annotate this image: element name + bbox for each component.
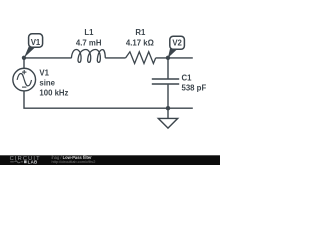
V1 sine symbol bbox=[17, 74, 31, 86]
ground bbox=[158, 118, 177, 128]
svg-text:LAB: LAB bbox=[28, 159, 38, 164]
wire top: L1 to R1 bbox=[105, 57, 125, 59]
capacitor C1 plates bbox=[152, 79, 179, 84]
svg-text:4.7 mH: 4.7 mH bbox=[76, 38, 102, 47]
junction dot node V2 bbox=[166, 56, 170, 60]
svg-text:sine: sine bbox=[39, 79, 55, 88]
resistor R1 zigzag bbox=[126, 52, 156, 64]
svg-text:V2: V2 bbox=[172, 39, 182, 48]
junction dot bottom bbox=[166, 106, 170, 110]
node V1 callout tail bbox=[24, 45, 35, 57]
svg-text:http://circuitlab.com/c9tv2: http://circuitlab.com/c9tv2 bbox=[52, 159, 96, 164]
node V1 box bbox=[29, 34, 43, 47]
wire C1 top lead bbox=[167, 58, 169, 79]
svg-text:538 pF: 538 pF bbox=[182, 84, 207, 93]
logo LAB mark bbox=[24, 160, 27, 163]
wire ground lead bbox=[167, 108, 169, 118]
svg-text:4.17 kΩ: 4.17 kΩ bbox=[126, 38, 154, 47]
wire top: node V1 to L1 bbox=[24, 57, 72, 59]
svg-text:R1: R1 bbox=[135, 28, 146, 37]
svg-text:L1: L1 bbox=[84, 28, 94, 37]
svg-text:100 kHz: 100 kHz bbox=[39, 89, 68, 98]
node V2 box bbox=[170, 36, 185, 49]
svg-text:C1: C1 bbox=[182, 74, 193, 83]
svg-text:V1: V1 bbox=[31, 38, 41, 47]
voltage source V1 circle bbox=[13, 68, 36, 91]
watermark bar bbox=[0, 155, 220, 165]
wire C1 bottom lead bbox=[167, 85, 169, 109]
junction dot node V1 bbox=[22, 56, 26, 60]
wire bottom rail with V1 bottom lead bbox=[24, 91, 193, 108]
inductor L1 bbox=[71, 50, 105, 63]
wire top: R1 to right stub through node V2 bbox=[156, 57, 193, 59]
logo waveform bbox=[10, 161, 23, 163]
V1 minus sign bbox=[22, 86, 26, 88]
node V2 callout tail bbox=[168, 48, 177, 58]
V1 plus sign bbox=[22, 70, 26, 74]
wire V1 top lead bbox=[23, 58, 25, 68]
svg-text:V1: V1 bbox=[39, 68, 49, 77]
